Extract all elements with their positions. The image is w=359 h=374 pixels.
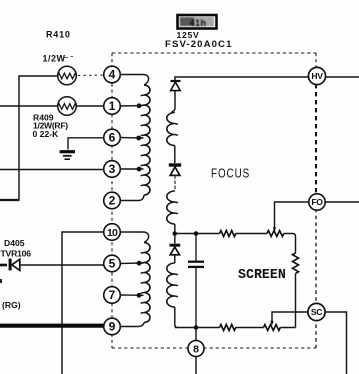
svg-text:7: 7: [109, 288, 116, 302]
svg-text:D405: D405: [4, 238, 25, 248]
wire: D405 to pin5: [21, 264, 104, 266]
wire: pin5 tap: [120, 262, 143, 265]
terminal HV: [308, 67, 325, 84]
wire: R409 to pin1: [76, 105, 103, 107]
wire: exit left at y200: [0, 199, 20, 201]
wire: D2 to coil B: [174, 175, 176, 191]
svg-text:0 22-K: 0 22-K: [33, 129, 60, 139]
wire: focus rail top: [175, 234, 296, 254]
svg-text:5: 5: [109, 257, 116, 271]
junction secondary node: [173, 231, 178, 236]
resistor R410: [58, 66, 77, 85]
wire: screen bottom rail: [175, 327, 296, 329]
junction cap top: [194, 231, 199, 236]
wire: coil bottom to pin2: [120, 195, 144, 201]
pin 4: [104, 66, 121, 83]
svg-text:FSV-20A0C1: FSV-20A0C1: [165, 39, 233, 50]
pin 6: [104, 129, 121, 146]
pin 9: [104, 318, 121, 335]
secondary A cusp ticks: [175, 124, 178, 136]
wire: R410 left lead down-left to edge: [19, 76, 57, 199]
secondary winding B: [167, 191, 175, 224]
wire: focus wiper to FO: [275, 202, 309, 230]
svg-text:SC: SC: [311, 307, 322, 317]
flyback transformer dashed outline T402: [112, 53, 316, 348]
wire: bleeder to bottom rail: [295, 274, 297, 328]
pin 3: [104, 161, 121, 178]
junction cap bottom: [194, 325, 199, 330]
wire: pin3 tap: [120, 168, 143, 170]
primary winding lower (pins 10-9): [144, 243, 150, 323]
faint print marks after 1/2W: [64, 57, 73, 58]
wire: node to D3: [174, 234, 176, 244]
resistor (focus series): [220, 231, 236, 237]
primary upper cusp ticks: [141, 95, 144, 186]
pin 5: [104, 255, 121, 272]
pin 8: [188, 341, 204, 357]
svg-text:SCREEN: SCREEN: [238, 268, 286, 283]
wire: FO to right edge: [325, 201, 359, 203]
wire: pin6 tap: [120, 137, 143, 140]
wire: pin10 left then down to bottom: [62, 232, 104, 374]
wire: lower coil bottom to pin9: [120, 323, 144, 327]
wire: D1 to coil A: [172, 91, 176, 113]
wire: pin8 stem: [195, 328, 197, 374]
diode D2: [169, 165, 181, 175]
wire: left edge to pin3: [0, 169, 104, 171]
svg-text:FO: FO: [311, 197, 323, 207]
wire: HV line across top: [175, 77, 359, 81]
svg-text:6: 6: [109, 131, 116, 145]
terminal SC: [308, 303, 325, 320]
part label box: [178, 15, 217, 29]
pin 2: [104, 192, 121, 209]
primary lower cusp ticks: [141, 253, 144, 314]
focus wiper arrowhead: [273, 227, 276, 231]
svg-text:8: 8: [193, 343, 199, 355]
wire: R410 to pin4 (faded dashes): [78, 74, 104, 77]
svg-text:9: 9: [109, 320, 116, 334]
wire: coil C to bottom rail: [175, 307, 178, 328]
svg-text:TVR106: TVR106: [1, 249, 32, 259]
thick wire to pin9: [0, 324, 104, 328]
wire: SC to right edge down: [325, 312, 347, 374]
wire: pin1 tap: [120, 105, 143, 107]
screen bleeder resistor (vertical): [293, 253, 299, 273]
wire: D3 to coil C: [174, 255, 176, 263]
svg-text:1: 1: [109, 99, 116, 113]
wire: pin4 to primary coil top: [120, 75, 148, 86]
secondary C cusp ticks: [175, 274, 178, 297]
pin 7: [104, 287, 121, 304]
svg-text:FOCUS: FOCUS: [211, 167, 250, 181]
svg-text:(RG): (RG): [2, 300, 21, 310]
wire: coil B to node: [174, 224, 176, 234]
junction pin5 tap: [137, 261, 142, 266]
secondary winding A: [167, 113, 175, 146]
terminal FO: [309, 194, 325, 210]
wire: pin10 to primary coil lower: [120, 232, 148, 243]
junction pin3 tap: [137, 167, 142, 172]
wire: pin7 tap: [120, 294, 143, 296]
wire: screen wiper to SC: [272, 312, 308, 324]
svg-text:R410: R410: [46, 30, 71, 40]
screen wiper arrowhead: [270, 321, 273, 325]
wire: pin6 to ground: [68, 138, 104, 150]
junction pin7 tap: [137, 293, 142, 298]
wire: left edge to R409: [0, 105, 57, 107]
capacitor: [188, 234, 204, 328]
svg-text:4: 4: [109, 68, 116, 82]
svg-text:HV: HV: [311, 71, 323, 81]
diode D3: [170, 245, 181, 255]
pin 10: [104, 224, 121, 241]
wire: coil A to D2: [174, 146, 176, 164]
secondary winding C: [167, 263, 175, 307]
resistor R409: [58, 97, 77, 116]
svg-text:2: 2: [109, 194, 116, 208]
svg-text:10: 10: [107, 227, 118, 239]
svg-text:3: 3: [109, 162, 116, 176]
primary winding upper (pins 4-2): [144, 85, 150, 195]
secondary B cusp ticks: [175, 202, 178, 214]
resistor (screen series): [220, 325, 236, 331]
focus potentiometer: [267, 231, 284, 237]
screen potentiometer: [264, 325, 281, 331]
junction pin6 tap: [136, 136, 141, 141]
svg-text:41h: 41h: [189, 18, 206, 28]
junction pin1 tap: [137, 103, 142, 108]
diode D405: [0, 259, 20, 271]
pin 1: [104, 98, 121, 115]
svg-text:1/2W: 1/2W: [43, 54, 66, 64]
diode D1 (top rectifier): [171, 81, 181, 91]
stub mark left edge: [0, 279, 2, 283]
ground: [60, 152, 75, 160]
